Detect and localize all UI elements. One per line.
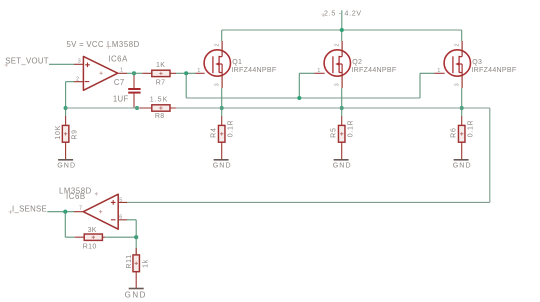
wire vcc label stub	[341, 10, 343, 30]
resistor R6	[458, 108, 465, 160]
wire R7 to gate node	[176, 72, 195, 74]
svg-text:1: 1	[120, 67, 123, 73]
svg-text:R11: R11	[126, 254, 133, 268]
svg-text:3: 3	[454, 83, 460, 86]
svg-text:10K: 10K	[55, 125, 62, 140]
svg-text:2.5 - 4.2V: 2.5 - 4.2V	[324, 10, 362, 17]
wire SET_VOUT to IC6A pin3	[49, 63, 74, 65]
svg-text:R6: R6	[451, 127, 458, 137]
resistor R10	[75, 234, 105, 240]
value LM358D of IC6B	[59, 187, 98, 196]
wire opamp out to R7	[127, 72, 142, 74]
wire Q3 drain drop	[461, 30, 463, 41]
value LM358D of IC6A	[106, 40, 139, 49]
junction inverting node / bus	[64, 106, 68, 110]
wire bus right corner to sense return	[127, 108, 490, 202]
op-amp IC6B	[74, 194, 127, 229]
svg-text:5: 5	[119, 197, 122, 203]
junction gate node	[184, 71, 188, 75]
junction Q1 source / bus	[220, 106, 224, 110]
svg-text:GND: GND	[57, 161, 76, 169]
svg-text:GND: GND	[125, 291, 147, 300]
junction I_SENSE node	[63, 210, 67, 214]
label SET_VOUT	[5, 56, 49, 66]
wire Q1 drain drop	[221, 30, 223, 41]
svg-text:6: 6	[119, 214, 122, 220]
wire pin6 to node	[127, 220, 136, 237]
svg-text:GND: GND	[453, 161, 472, 169]
resistor R4	[218, 108, 225, 160]
ground under R9	[57, 160, 76, 170]
svg-text:3: 3	[214, 83, 220, 86]
svg-text:R7: R7	[156, 79, 166, 86]
svg-text:2: 2	[454, 43, 460, 46]
junction Q2 source / bus	[340, 106, 344, 110]
transistor Q3	[435, 41, 471, 88]
resistor R11	[133, 237, 140, 288]
ground under R6	[453, 160, 472, 170]
svg-text:2: 2	[76, 77, 79, 83]
svg-text:0.1R: 0.1R	[468, 120, 475, 138]
svg-text:IRFZ44NPBF: IRFZ44NPBF	[471, 67, 516, 74]
svg-text:7: 7	[79, 205, 82, 211]
resistor R8	[139, 105, 176, 111]
wire R10 to node	[105, 236, 136, 238]
svg-text:I_SENSE: I_SENSE	[12, 204, 47, 213]
wire IC6A pin2 feedback drop	[66, 82, 74, 108]
transistor Q1	[196, 41, 231, 88]
wire Q3 source drop	[461, 88, 463, 108]
wire gate node drop	[185, 73, 187, 98]
svg-text:R8: R8	[155, 113, 165, 120]
svg-text:1: 1	[317, 68, 320, 74]
ground under R4	[213, 160, 232, 170]
transistor Q2	[315, 41, 351, 88]
svg-text:3: 3	[78, 58, 81, 64]
svg-text:IC6B: IC6B	[66, 192, 86, 201]
wire Q2 drain drop	[341, 30, 343, 41]
svg-text:0.1R: 0.1R	[348, 120, 355, 138]
junction C7 bottom / bus	[135, 106, 139, 110]
resistor R7	[142, 70, 176, 76]
svg-text:R5: R5	[331, 127, 338, 137]
node 2.5-4.2V supply label	[322, 10, 362, 17]
svg-text:2: 2	[214, 43, 220, 46]
wire Q3 gate riser	[420, 73, 435, 98]
svg-text:R9: R9	[71, 129, 78, 139]
junction gate bus Q2 tee	[297, 96, 301, 100]
svg-text:GND: GND	[333, 161, 352, 169]
svg-text:1K: 1K	[156, 62, 165, 69]
svg-text:IRFZ44NPBF: IRFZ44NPBF	[351, 67, 396, 74]
svg-text:IC6A: IC6A	[108, 54, 128, 63]
ground under R11	[125, 289, 147, 300]
junction vcc rail / Q2 drain	[340, 28, 344, 32]
wire feedback drop to R10	[65, 212, 74, 238]
resistor R9	[62, 108, 69, 160]
resistor R5	[338, 108, 345, 160]
wire gate bus	[186, 97, 420, 99]
svg-text:C7: C7	[114, 78, 125, 87]
svg-text:LM358D: LM358D	[107, 40, 140, 49]
label I_SENSE	[9, 204, 47, 213]
svg-text:1k: 1k	[142, 259, 149, 268]
svg-text:Q1: Q1	[232, 59, 242, 66]
junction C7 top / opamp output	[132, 71, 136, 75]
capacitor C7	[128, 73, 140, 108]
svg-text:0.1R: 0.1R	[228, 120, 235, 138]
ground under R5	[333, 160, 352, 170]
svg-text:R10: R10	[83, 244, 97, 251]
svg-text:SET_VOUT: SET_VOUT	[5, 56, 49, 65]
wire top drain rail	[222, 29, 462, 31]
svg-text:Q3: Q3	[472, 59, 482, 66]
wire Q2 gate riser	[299, 73, 314, 98]
junction Q3 source / bus	[460, 106, 464, 110]
svg-text:2: 2	[334, 43, 340, 46]
svg-text:1.5K: 1.5K	[150, 96, 169, 103]
svg-text:R4: R4	[211, 127, 218, 137]
op-amp IC6A	[74, 56, 127, 90]
wire source sense bus	[66, 107, 490, 109]
svg-text:3: 3	[334, 83, 340, 86]
svg-text:1: 1	[197, 68, 200, 74]
svg-text:IRFZ44NPBF: IRFZ44NPBF	[231, 67, 276, 74]
wire I_SENSE to IC6B output	[47, 211, 74, 213]
svg-text:5V = VCC: 5V = VCC	[67, 40, 104, 49]
wire Q1 source drop	[221, 88, 223, 108]
svg-text:1UF: 1UF	[113, 95, 129, 104]
svg-text:3K: 3K	[88, 227, 97, 234]
svg-text:GND: GND	[213, 161, 232, 169]
svg-text:Q2: Q2	[352, 59, 362, 66]
svg-text:1: 1	[437, 68, 440, 74]
junction R10/R11/pin6 node	[134, 235, 138, 239]
wire Q2 source drop	[341, 88, 343, 108]
